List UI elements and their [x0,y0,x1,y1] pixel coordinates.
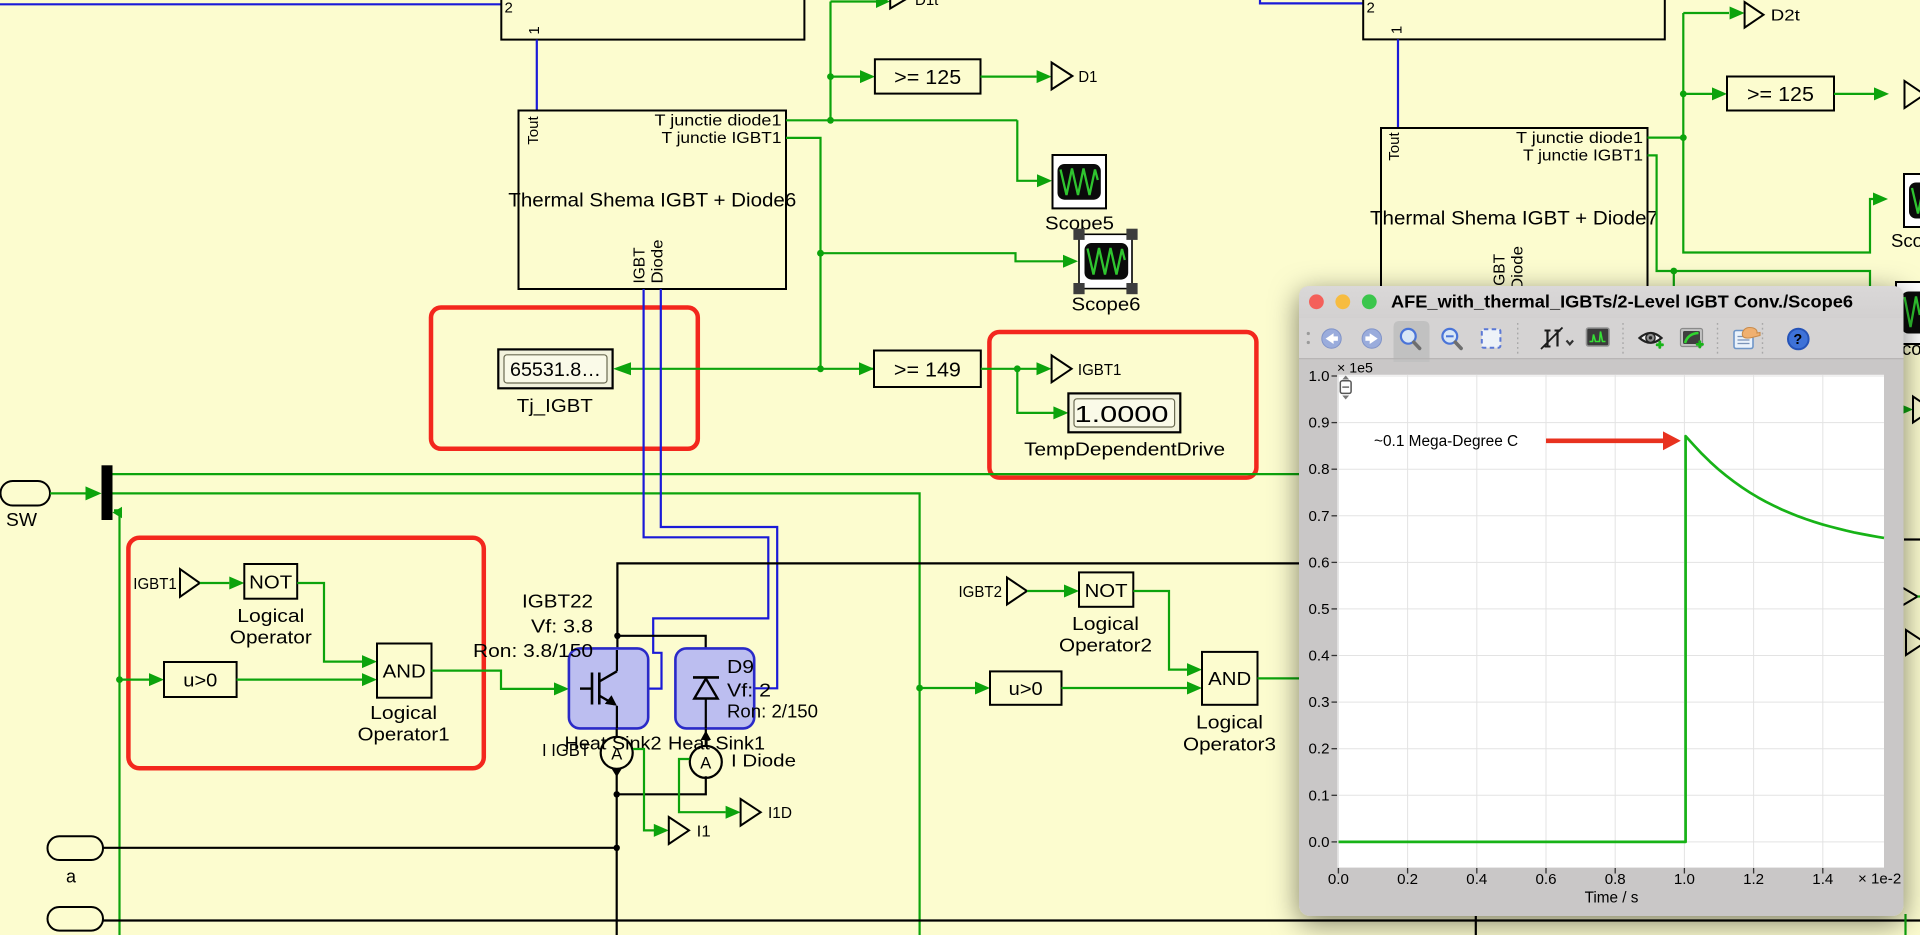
wire: green vertical below window right [1904,914,1906,935]
svg-text:Vf: 3.8: Vf: 3.8 [531,617,593,637]
wire: blue gate routing from Diode6 IGBT port down to IGBT block right side [644,289,769,689]
mux bar [102,465,113,520]
svg-text:co: co [1902,338,1920,359]
current sensor I IGBT [542,737,633,769]
goto tag I1D [741,799,792,826]
svg-text:0.6: 0.6 [1309,554,1330,571]
svg-text:IGBT1: IGBT1 [1078,362,1122,379]
wire: green branch into >= 125 comparator [831,75,861,77]
svg-text:0.8: 0.8 [1605,871,1626,888]
wire: green vertical rail from Diode7 diode1 port [1648,137,1684,139]
display block TempDependentDrive value 1.0000 [1024,393,1225,459]
wire: green from tag IGBT2 into NOT2 [1027,590,1064,592]
svg-text:T junctie diode1: T junctie diode1 [655,113,782,130]
svg-text:?: ? [1793,332,1802,348]
wire: black vertical below window [1475,914,1477,935]
svg-text:>= 125: >= 125 [1747,84,1814,106]
subsystem block top-right (partially cut at top) [1363,0,1665,39]
logic block NOT (Logical Operator2) [1059,572,1152,655]
plot y-scale cursor icon [1340,376,1351,400]
annotation red box around Tj_IGBT [431,308,698,449]
svg-text:1.2: 1.2 [1743,871,1764,888]
wire: green mux output bus middle turning down at x=919 [113,493,920,935]
wire: black long bottom rail [103,919,1920,921]
svg-text:IGBT2: IGBT2 [959,584,1003,601]
goto tag right edge top (cut) [1905,81,1920,108]
annotation red box TempDependentDrive [989,332,1256,478]
scope block at right edge partially behind window [1896,282,1920,359]
compare block u>0 #2 [990,671,1062,704]
wire: green NOT output to AND input 1 [297,583,362,662]
inport oval a [48,836,104,886]
wire: green AND output to IGBT gate [432,671,555,689]
svg-text:Operator3: Operator3 [1183,735,1276,755]
svg-text:Logical: Logical [1196,713,1263,733]
svg-text:0.2: 0.2 [1397,871,1418,888]
svg-text:Vf: 2: Vf: 2 [727,681,771,701]
svg-text:1: 1 [1389,26,1406,34]
svg-text:Diode: Diode [650,240,667,284]
wire: green u>0 #2 output to AND2 input 2 [1062,687,1188,689]
svg-text:IGBT: IGBT [1492,253,1509,290]
goto tag IGBT1 [1052,355,1122,382]
wire: black from a to IGBT leg junction [103,847,617,849]
wire: green branch into Scope6 [821,253,1064,261]
wire: green comparator 149 output to IGBT1 goto and display [981,368,1037,370]
annotation text IGBT22 parameters [473,592,593,662]
wire: green from Diode7 IGBT1 port down to hidden scope [1648,155,1871,292]
svg-text:0.7: 0.7 [1309,508,1330,525]
svg-text:Operator1: Operator1 [358,725,450,745]
comparator block >= 125 right [1727,77,1834,111]
svg-text:I Diode: I Diode [731,751,796,771]
svg-text:Operator: Operator [230,628,312,648]
annotation red arrow [1546,438,1663,443]
toolbar icon simulate/clipboard [1734,328,1760,349]
wire: green comparator 2 output to edge goto [1834,93,1874,95]
svg-text:Tout: Tout [525,115,542,144]
svg-text:Ron: 2/150: Ron: 2/150 [727,702,818,722]
svg-text:Tout: Tout [1386,131,1403,160]
plot gridlines [1338,375,1885,868]
scope block Scope5 [1045,155,1114,234]
node junction on diode1 wire [827,117,834,124]
wire: green NOT2 output to AND2 input 1 [1133,591,1187,670]
node junction on Tj wire [817,365,824,372]
svg-text:× 1e5: × 1e5 [1337,361,1373,377]
logic block AND (Logical Operator1) [358,644,450,745]
node junction on IGBT1 wire [1670,268,1677,275]
goto tag D2t [1683,2,1800,28]
wire: black collector rail from IGBT up and right (under scope window) [617,563,1300,671]
annotation red box around logical operators group 1 [128,538,483,769]
svg-text:2: 2 [1367,0,1375,17]
node junction black on a wire [614,845,620,851]
wire: blue signal into top-left subsystem [0,3,501,5]
goto tag D1 [1052,63,1098,90]
svg-text:>= 149: >= 149 [894,360,961,382]
svg-text:u>0: u>0 [1009,679,1043,699]
inport oval bottom [48,907,104,931]
svg-text:IGBT22: IGBT22 [522,592,593,612]
toolbar icon forward [1362,329,1381,348]
svg-text:1.0: 1.0 [1309,368,1330,385]
svg-text:0.3: 0.3 [1309,694,1330,711]
IGBT block Heat Sink2 [569,648,648,728]
logic block AND (Logical Operator3) [1183,652,1276,755]
svg-text:T junctie IGBT1: T junctie IGBT1 [662,130,782,147]
svg-text:D2t: D2t [1771,8,1801,25]
svg-text:1.4: 1.4 [1812,871,1833,888]
wire: green mux bottom port turning down at x=119 [114,510,120,935]
svg-text:2: 2 [505,0,513,17]
scope trace green curve [1339,436,1885,842]
wire: black diode sensor return to junction [617,776,706,794]
wire: green rail to u>0 [120,678,150,680]
x axis labels [1328,871,1833,888]
node junction feeding comparator [827,73,834,80]
svg-text:65531.8…: 65531.8… [510,360,601,381]
traffic light minimize button [1335,294,1350,309]
svg-text:Operator2: Operator2 [1059,636,1152,656]
node junction on left green rail feeding u>0 [116,676,123,683]
node junction on rail at diode1 port [1680,134,1687,141]
annotation text D9 parameters [727,657,818,722]
display block Tj_IGBT [498,349,612,417]
svg-text:0.6: 0.6 [1536,871,1557,888]
toolbar separator [1717,323,1719,354]
wire: green comparator output to D1 [981,75,1037,77]
svg-text:>= 125: >= 125 [894,67,961,89]
toolbar icon zoom-out [1442,329,1461,349]
svg-text:u>0: u>0 [183,671,217,691]
svg-text:0.0: 0.0 [1328,871,1349,888]
svg-text:0.4: 0.4 [1309,648,1330,665]
y axis labels [1309,368,1330,851]
svg-text:0.8: 0.8 [1309,461,1330,478]
wire: green branch into >= 125 comparator 2 [1683,93,1712,95]
wire: green from tag into NOT [200,582,230,584]
svg-text:1: 1 [526,26,543,34]
wire: blue routing from Diode6 Diode port down to diode block right side [661,289,777,688]
toolbar icon highlight-signal (eye with plus) [1640,333,1664,349]
goto tag right edge apex at y=596 (cut) [1899,586,1920,608]
goto tag right edge at y=409 (cut) [1897,397,1920,423]
scope block Scope6 (selected) [1072,229,1141,315]
node junction on rail feeding comparator 2 [1680,91,1687,98]
svg-text:Logical: Logical [370,703,437,723]
wire: blue from port 1 down to Thermal Shema IGBT + Diode7 [1397,39,1399,128]
logic block NOT (Logical Operator) [230,564,312,648]
goto tag right edge at y=642 (cut) [1906,630,1920,655]
plot white area [1338,375,1885,868]
comparator block >= 149 [874,351,981,388]
svg-text:Thermal Shema IGBT + Diode7: Thermal Shema IGBT + Diode7 [1370,208,1658,230]
svg-text:TempDependentDrive: TempDependentDrive [1024,440,1225,460]
wire: green IGBT sensor measurement to I1 [633,749,654,830]
inport oval SW [1,481,51,530]
svg-text:× 1e-2: × 1e-2 [1858,871,1901,888]
wire: blue from top edge elbow to top-right subsystem [1260,0,1363,3]
wire: green from SW into mux bar [50,492,86,494]
toolbar icon zoom-in selected [1394,321,1430,362]
goto tag D1t (cut at top edge) [831,0,940,9]
goto tag I1 [669,817,711,844]
svg-text:0.4: 0.4 [1466,871,1487,888]
wire: blue from port 1 down to Thermal Shema IGBT + Diode6 [536,40,538,111]
toolbar separator [1517,323,1519,354]
toolbar icon new figure (green panel with plus) [1681,329,1704,349]
svg-text:Ron: 3.8/150: Ron: 3.8/150 [473,641,593,661]
svg-text:SW: SW [6,510,37,530]
toolbar separator [1762,323,1764,354]
toolbar separator [1622,323,1624,354]
wire: green from T junctie diode1 of Diode6 with vertical branch [786,119,1017,121]
toolbar icon fit-to-view [1482,329,1501,348]
node junction black collector/diode [614,633,620,639]
toolbar icon display [1587,328,1610,346]
wire: black branch to diode anode [617,636,705,678]
wire: green Tj junction line (arrow points left into display) [631,368,874,370]
svg-text:a: a [66,867,77,887]
svg-text:NOT: NOT [1085,580,1128,601]
svg-text:0.0: 0.0 [1309,834,1330,851]
svg-text:Scope4: Scope4 [1891,230,1920,251]
node junction black below sensor [614,791,620,797]
wire: black IGBT emitter into current sensor [616,728,618,737]
svg-text:I1D: I1D [768,805,792,822]
comparator block >= 125 [875,59,981,93]
wire: green rail to u>0 #2 [920,687,975,689]
svg-text:1.0: 1.0 [1674,871,1695,888]
scope block right edge (cut) [1891,174,1920,251]
subsystem block Thermal Shema IGBT + Diode7 [1370,128,1658,306]
wire: black stub right edge [1904,538,1920,540]
svg-text:Time / s: Time / s [1585,890,1639,907]
wire: black sensor output down with arrow and junction [616,769,618,935]
svg-text:Tj_IGBT: Tj_IGBT [517,395,593,417]
svg-text:AFE_with_thermal_IGBTs/2-Level: AFE_with_thermal_IGBTs/2-Level IGBT Conv… [1391,292,1853,312]
wire: green from T junctie IGBT1 of Diode6 down to Tj display level [786,138,821,369]
from tag IGBT1 [133,569,200,597]
svg-text:IGBT1: IGBT1 [133,576,177,593]
subsystem block Thermal Shema IGBT + Diode6 [508,111,796,290]
svg-text:D1t: D1t [915,0,939,9]
svg-text:T junctie IGBT1: T junctie IGBT1 [1523,148,1643,165]
svg-text:NOT: NOT [249,572,292,593]
svg-text:0.2: 0.2 [1309,741,1330,758]
compare block u>0 [164,662,237,697]
wire: green diode sensor measurement to I1D [679,759,726,812]
svg-text:Logical: Logical [237,606,304,626]
traffic light zoom button [1362,294,1377,309]
svg-text:0.9: 0.9 [1309,415,1330,432]
subsystem block top-left (partially cut at top) [501,0,804,40]
svg-text:T junctie diode1: T junctie diode1 [1516,130,1643,147]
node junction after comparator 149 [1014,365,1021,372]
toolbar icon help [1788,329,1809,350]
wire: green stub down from junction (hidden behind window) [1673,271,1675,290]
diode block Heat Sink1 (D9) [675,648,754,728]
svg-text:Heat Sink1: Heat Sink1 [668,734,765,754]
toolbar bottom edge [1299,358,1904,360]
toolbar grip [1307,332,1310,335]
toolbar icon axes scaling with caret [1541,328,1573,350]
svg-text:Thermal Shema IGBT + Diode6: Thermal Shema IGBT + Diode6 [508,190,796,212]
svg-text:AND: AND [383,661,426,682]
from tag IGBT2 [959,578,1028,605]
svg-text:D1: D1 [1078,69,1097,86]
toolbar icon back [1322,329,1341,348]
svg-text:0.5: 0.5 [1309,601,1330,618]
node junction on x=919 green rail feeding u>0 #2 [916,685,923,692]
svg-text:I1: I1 [697,824,711,841]
wire: green AND2 output toward window [1258,677,1301,679]
svg-text:Diode: Diode [1510,246,1527,290]
wire: green mux output bus upper (runs under scope window) [113,473,1301,475]
wire: black diode cathode with up arrow into diode [705,728,707,747]
svg-text:A: A [700,754,711,772]
svg-text:Heat Sink2: Heat Sink2 [565,734,662,754]
plot axis ticks [1332,376,1823,874]
svg-text:AND: AND [1208,668,1251,689]
svg-text:~0.1 Mega-Degree C: ~0.1 Mega-Degree C [1374,433,1518,450]
svg-text:Logical: Logical [1072,614,1139,634]
node junction to Scope6 [817,250,824,257]
current sensor I Diode [690,746,796,778]
svg-text:1.0000: 1.0000 [1075,401,1169,427]
svg-text:D9: D9 [727,657,754,677]
wire: green u>0 output to AND input 2 [237,678,362,680]
svg-text:IGBT: IGBT [632,247,649,284]
traffic light close button [1309,294,1324,309]
svg-text:0.1: 0.1 [1309,787,1330,804]
svg-text:Scope6: Scope6 [1072,294,1141,315]
